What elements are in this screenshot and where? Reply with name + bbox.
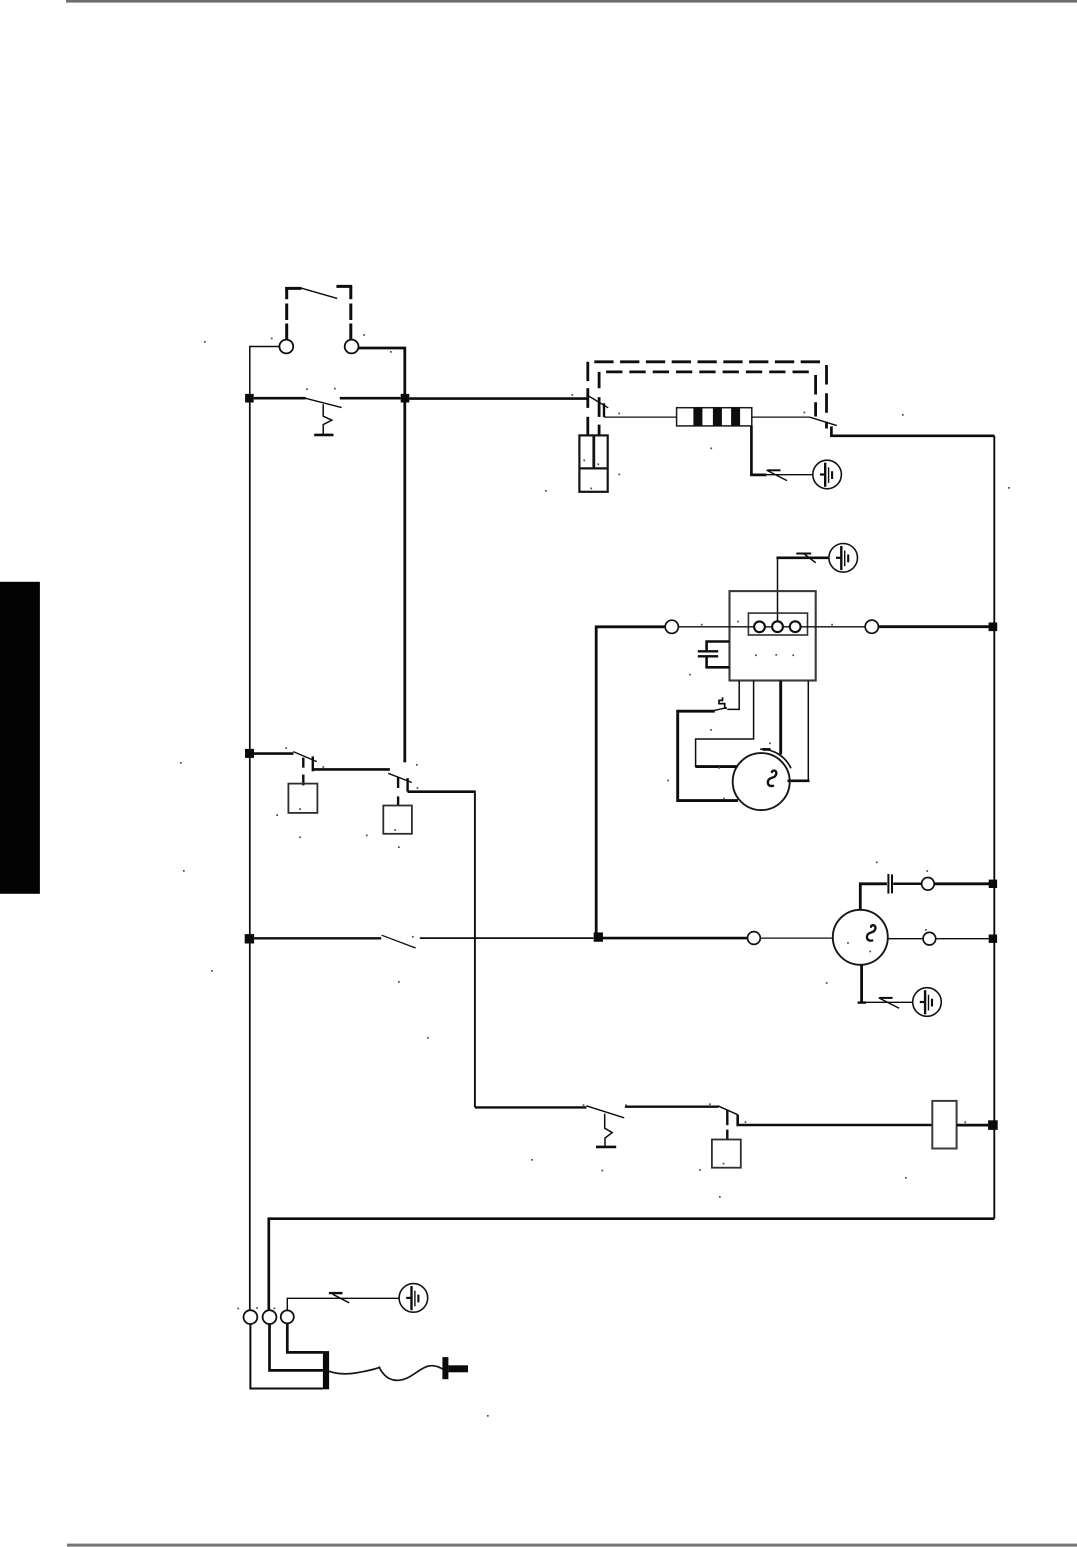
flywheel rotation arc <box>760 749 791 768</box>
wire kill switch loop to engine <box>678 711 738 800</box>
module pin 1 <box>754 621 765 632</box>
wire module leg 1 <box>727 681 739 710</box>
wire key switch to resistor <box>604 416 677 418</box>
junction node I (right bus) <box>988 1120 998 1130</box>
key switch terminal tick <box>603 403 605 417</box>
brake switch S4 terminal ticks <box>397 778 399 789</box>
wire module centre pin to ground G2 <box>777 558 779 622</box>
ground strap cable <box>329 1366 444 1381</box>
wire relay to right bus <box>957 1124 990 1127</box>
page bottom rule <box>67 1544 1077 1547</box>
wire safety switch output to relay <box>738 1115 933 1125</box>
module pin 3 <box>790 621 801 632</box>
PTO switch S6 return spring <box>605 1114 613 1146</box>
brake switch S4 blade <box>388 773 412 782</box>
connector circle battery 2 <box>263 1310 277 1324</box>
capacitor C2 (charge lead) <box>887 874 889 894</box>
wire left feed corner to mid bus <box>596 625 665 628</box>
wire alternator mid lead <box>888 938 923 940</box>
junction node D (left bus / brake row) <box>245 749 254 758</box>
wire resistor bottom lead <box>751 426 766 475</box>
capacitor C1 <box>698 642 730 668</box>
chassis stud vertical bar <box>442 1357 448 1379</box>
wire resistor to key switch right blade <box>752 416 810 418</box>
connector in ground lead 1 <box>768 469 781 471</box>
fuse / relay block K1 <box>932 1101 956 1149</box>
junction node E (left bus / mid bus) <box>245 934 254 943</box>
engine winding squiggle <box>768 771 777 786</box>
key switch blade (bus side) <box>586 395 608 408</box>
left bus vertical <box>249 403 251 1311</box>
interlock switch S5 blade <box>382 935 416 948</box>
ignition module terminal strip <box>748 613 807 635</box>
scan specks (decorative noise) <box>180 334 1010 1417</box>
module pin 2 <box>772 621 783 632</box>
seat switch S1 dashed plunger left <box>285 287 301 340</box>
flywheel arc arrowhead <box>763 748 771 751</box>
key switch housing outer dashed box <box>588 362 827 436</box>
connector circle mid lead <box>923 932 936 945</box>
wire to ground G1 <box>767 474 813 476</box>
ground G3 <box>913 988 942 1017</box>
clutch switch body box <box>288 784 317 813</box>
black sidebar tab <box>0 582 40 894</box>
connector in ground lead 2 <box>796 553 811 555</box>
ground G1 <box>813 460 842 489</box>
junction node H (right bus) <box>989 935 997 943</box>
connector in ground lead 4 <box>329 1292 343 1294</box>
ground G2 <box>829 544 858 573</box>
connector circle right of module <box>865 620 878 633</box>
wire module to right bus <box>878 625 990 628</box>
connector circle battery 1 <box>244 1310 258 1324</box>
wire seat switch left to left bus <box>250 347 279 395</box>
wire brake switch output <box>408 792 475 1108</box>
ignition module U1 body <box>730 591 816 680</box>
ground G4 <box>399 1284 428 1313</box>
wire bottom row segment 2 <box>625 1105 719 1107</box>
wire battery leg 2 <box>270 1324 323 1370</box>
wire capacitor to connector <box>893 883 922 886</box>
wire node D to clutch switch <box>254 752 294 755</box>
kill switch actuator mark <box>719 697 727 708</box>
clutch switch lead tick <box>302 775 304 786</box>
seat switch S1 blade <box>302 288 338 298</box>
wire through module terminals <box>678 626 865 628</box>
connector circle charge lead <box>922 878 935 891</box>
connector circle left of module <box>665 620 678 633</box>
page top rule <box>66 0 1077 3</box>
wire key switch output to right bus <box>831 426 994 435</box>
wire seat switch right down to top bus <box>359 348 405 394</box>
wire top bus segment 2 <box>340 397 401 400</box>
brake switch body box <box>383 806 412 834</box>
wire alternator bottom lead <box>860 965 863 1003</box>
wire battery leg 1 <box>250 1324 323 1389</box>
resistor / ignition element R1 body <box>677 408 752 426</box>
wire top bus segment 3 to key switch <box>409 397 587 400</box>
junction node A (left bus / top bus) <box>245 394 254 403</box>
seat switch terminal circle right <box>345 340 359 354</box>
wire clutch switch to brake switch <box>313 768 390 771</box>
connector circle mid bus <box>748 932 761 945</box>
alternator winding squiggle <box>867 925 876 940</box>
battery terminal bar <box>323 1351 329 1389</box>
momentary switch S2 blade <box>305 398 341 407</box>
wire top bus segment 1 <box>254 397 306 400</box>
kill switch blade <box>714 708 726 711</box>
fuse block F1 <box>579 435 607 491</box>
wire module leg 4 <box>807 681 809 781</box>
safety switch body box <box>712 1140 741 1168</box>
wire bottom row feed <box>475 1106 587 1108</box>
engine / flywheel M1 <box>733 753 790 810</box>
wire ignition column down from node B <box>403 403 406 763</box>
momentary switch S2 return spring <box>323 404 332 434</box>
wire module leg 2 <box>696 681 754 767</box>
wire to alternator <box>760 937 833 939</box>
junction node F (mid bus / module feed) <box>594 932 603 941</box>
safety switch lead tick <box>726 1130 728 1140</box>
junction node B (top bus / ignition column) <box>401 394 410 403</box>
wire mid bus segment 1 <box>254 937 381 939</box>
seat switch S1 dashed plunger right <box>336 286 352 339</box>
seat switch terminal circle left <box>279 340 293 354</box>
key switch blade (output side) <box>809 417 836 426</box>
wire module leg 3 <box>779 681 782 755</box>
junction node G (right bus) <box>989 880 997 888</box>
alternator G circle <box>833 910 888 965</box>
clutch switch S3 blade <box>293 752 317 762</box>
key switch housing inner dashed box <box>599 372 816 435</box>
clutch switch S3 terminal ticks <box>302 758 304 768</box>
connector circle battery 3 <box>281 1310 294 1323</box>
wire alternator top lead <box>860 884 887 910</box>
safety switch S7 blade <box>718 1106 738 1115</box>
brake switch lead tick <box>397 796 399 805</box>
safety switch S7 terminal tick <box>726 1110 728 1125</box>
wire mid bus segment 2 <box>420 937 594 939</box>
wire mid bus segment 3 <box>602 937 747 940</box>
wire mid lead to right bus <box>936 938 990 940</box>
wire right bus vertical <box>993 436 995 1219</box>
wire bottom return <box>269 1219 995 1311</box>
connector in ground lead 3 <box>880 997 893 999</box>
PTO switch S6 blade <box>586 1106 624 1118</box>
wire to ground G3 <box>862 1001 914 1003</box>
junction node C (right bus) <box>989 623 998 632</box>
wire battery leg 3 <box>287 1323 323 1352</box>
wire connector 3 to ground lead <box>287 1298 399 1310</box>
wire connector to right bus <box>934 882 990 885</box>
chassis stud horizontal bar <box>448 1365 468 1372</box>
